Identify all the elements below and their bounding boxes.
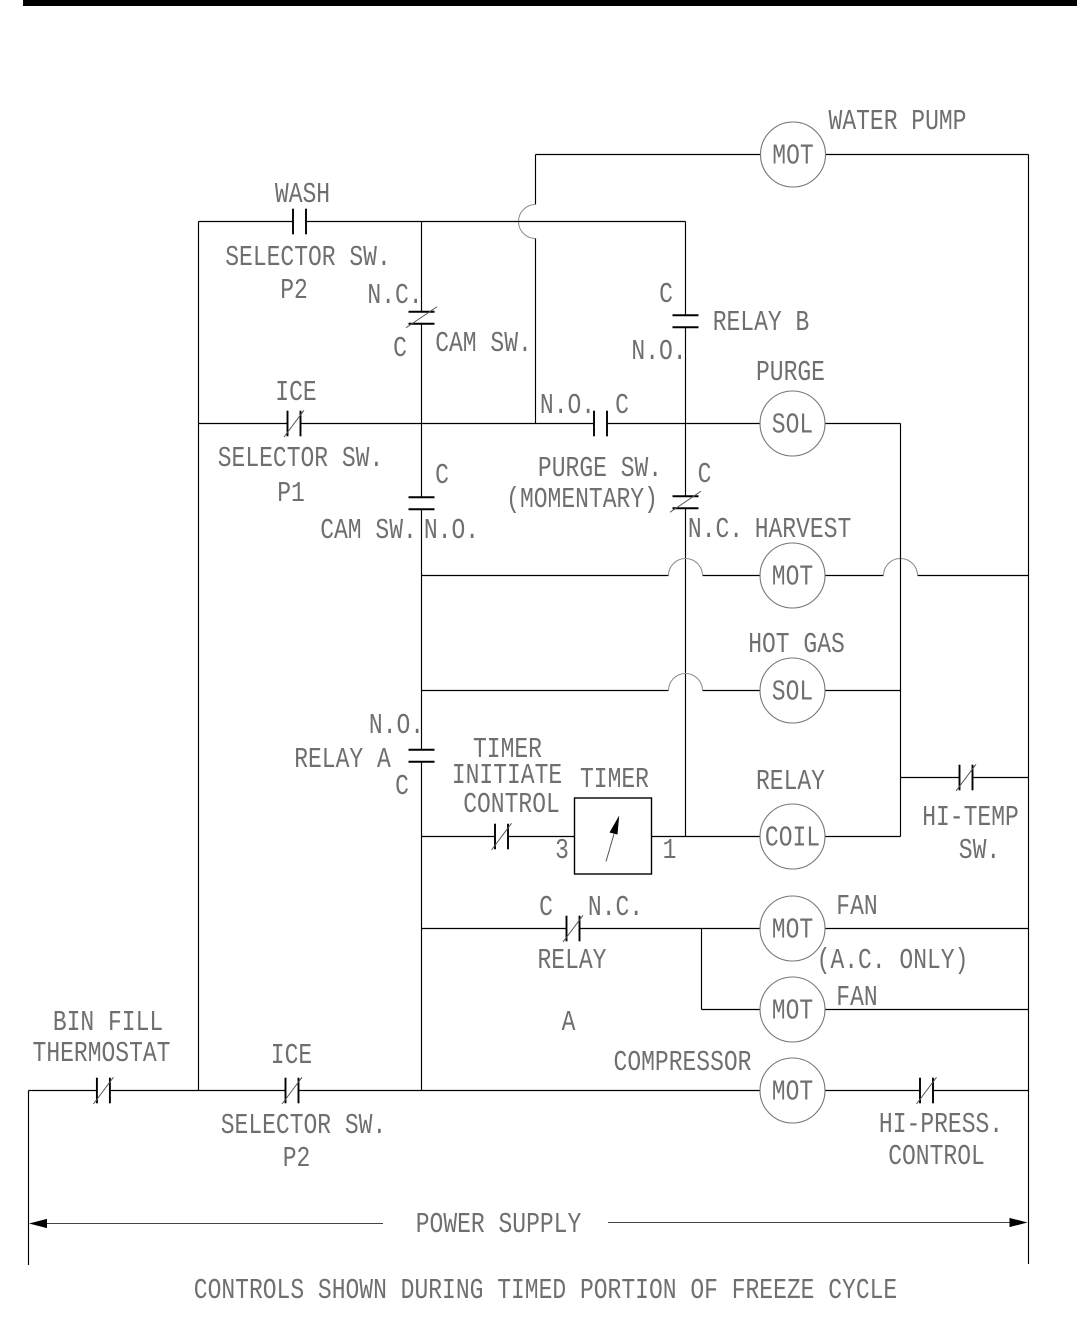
switch WASH selector sw P2 — [293, 209, 306, 235]
svg-text:COMPRESSOR: COMPRESSOR — [614, 1046, 752, 1079]
svg-text:HI-TEMP: HI-TEMP — [922, 801, 1019, 834]
title bar — [23, 0, 1077, 6]
svg-text:P2: P2 — [280, 274, 308, 307]
switch purge sw momentary — [594, 411, 607, 437]
svg-text:MOT: MOT — [772, 1075, 813, 1108]
contact relay A N.O. — [409, 750, 435, 762]
motor harvest MOT — [760, 543, 825, 608]
svg-text:N.O.: N.O. — [369, 709, 424, 742]
svg-text:WASH: WASH — [275, 178, 330, 211]
svg-text:N.O.: N.O. — [631, 335, 686, 368]
wire water pump drop upper — [535, 155, 537, 205]
svg-text:RELAY A: RELAY A — [294, 743, 391, 776]
svg-text:C: C — [659, 278, 673, 311]
svg-text:1: 1 — [663, 834, 677, 867]
wire purge/hi-temp vertical — [900, 424, 902, 837]
svg-text:RELAY: RELAY — [538, 944, 607, 977]
switch cam sw 1 N.C. — [406, 307, 437, 328]
wire cam-sw vertical — [421, 222, 423, 1091]
svg-text:P1: P1 — [277, 477, 305, 510]
svg-text:PURGE: PURGE — [756, 356, 825, 389]
motor fan1 MOT — [760, 896, 825, 961]
svg-text:CAM SW.: CAM SW. — [435, 327, 532, 360]
svg-text:CAM SW.: CAM SW. — [320, 514, 417, 547]
svg-text:TIMER: TIMER — [580, 763, 649, 796]
svg-text:C: C — [698, 458, 712, 491]
wire fan link vertical — [701, 929, 703, 1010]
svg-text:3: 3 — [555, 834, 569, 867]
svg-text:N.C.: N.C. — [367, 279, 422, 312]
svg-text:HOT GAS: HOT GAS — [748, 628, 845, 661]
svg-text:MOT: MOT — [772, 560, 813, 593]
wire water pump row — [536, 154, 1029, 156]
svg-text:HARVEST: HARVEST — [755, 513, 852, 546]
svg-text:WATER PUMP: WATER PUMP — [829, 105, 967, 138]
svg-text:POWER SUPPLY: POWER SUPPLY — [416, 1208, 582, 1241]
svg-text:P2: P2 — [283, 1142, 311, 1175]
switch ICE selector sw P2 bottom — [282, 1077, 302, 1104]
svg-text:CONTROLS SHOWN DURING TIMED PO: CONTROLS SHOWN DURING TIMED PORTION OF F… — [194, 1274, 897, 1307]
svg-text:MOT: MOT — [772, 913, 813, 946]
svg-text:C: C — [539, 891, 553, 924]
svg-text:(MOMENTARY): (MOMENTARY) — [506, 483, 658, 516]
switch bin fill thermostat — [93, 1077, 113, 1104]
wire right rail — [1028, 155, 1030, 1265]
svg-text:BIN FILL: BIN FILL — [53, 1006, 163, 1039]
svg-text:SELECTOR SW.: SELECTOR SW. — [218, 442, 384, 475]
svg-text:SELECTOR SW.: SELECTOR SW. — [221, 1109, 387, 1142]
motor water pump MOT — [761, 122, 826, 187]
contact N.C. harvest — [670, 491, 701, 512]
svg-text:SOL: SOL — [772, 408, 813, 441]
svg-text:N.O.: N.O. — [540, 389, 595, 422]
timer box — [575, 798, 652, 874]
hop hot gas over relay-b line — [669, 674, 703, 691]
timer hand — [606, 834, 614, 862]
motor compressor MOT — [760, 1058, 825, 1123]
svg-text:SELECTOR SW.: SELECTOR SW. — [225, 241, 391, 274]
svg-text:N.C.: N.C. — [688, 513, 743, 546]
svg-text:THERMOSTAT: THERMOSTAT — [33, 1037, 171, 1070]
motor fan2 MOT — [760, 977, 825, 1042]
contact relay B — [673, 315, 699, 327]
switch ICE selector sw P1 — [284, 410, 304, 437]
svg-text:MOT: MOT — [772, 139, 813, 172]
wire left rail — [198, 222, 200, 1091]
switch hi-press control — [917, 1077, 937, 1104]
wire fan2 row — [702, 1009, 1029, 1011]
svg-text:(A.C. ONLY): (A.C. ONLY) — [817, 944, 969, 977]
svg-text:RELAY: RELAY — [756, 765, 825, 798]
switch cam sw 2 N.O. — [409, 497, 435, 509]
wire ice/purge row — [199, 423, 901, 425]
wire fan1 row — [422, 928, 1029, 930]
switch timer initiate control — [492, 823, 512, 850]
power supply right arrow — [608, 1222, 1010, 1224]
wire water pump drop lower — [535, 239, 537, 424]
solenoid purge SOL — [760, 391, 825, 456]
switch hi-temp sw — [956, 764, 976, 791]
svg-text:ICE: ICE — [271, 1039, 312, 1072]
svg-text:C: C — [615, 389, 629, 422]
svg-text:HI-PRESS.: HI-PRESS. — [879, 1108, 1003, 1141]
solenoid hot gas SOL — [760, 658, 825, 723]
svg-text:CONTROL: CONTROL — [463, 788, 560, 821]
svg-text:CONTROL: CONTROL — [888, 1140, 985, 1173]
svg-text:C: C — [393, 332, 407, 365]
wire hop over wash row — [519, 205, 536, 239]
svg-text:COIL: COIL — [765, 821, 820, 854]
wire wash row — [199, 221, 686, 223]
svg-text:FAN: FAN — [836, 890, 877, 923]
svg-text:SW.: SW. — [959, 834, 1000, 867]
svg-text:RELAY B: RELAY B — [713, 306, 810, 339]
wire relay-b vertical — [685, 222, 687, 837]
contact relay A fan row — [563, 915, 583, 942]
svg-text:FAN: FAN — [836, 981, 877, 1014]
wire left power stub — [28, 1091, 30, 1266]
svg-text:C: C — [435, 459, 449, 492]
svg-text:A: A — [562, 1006, 576, 1039]
hop harvest over relay-b line — [669, 559, 703, 576]
svg-text:N.C.: N.C. — [588, 891, 643, 924]
svg-text:ICE: ICE — [275, 376, 316, 409]
wire harvest row — [422, 575, 1029, 577]
wire timer row — [422, 836, 901, 838]
power supply left arrow — [46, 1223, 383, 1225]
svg-text:SOL: SOL — [772, 675, 813, 708]
svg-text:MOT: MOT — [772, 994, 813, 1027]
wire hi-temp row — [901, 777, 1029, 779]
wire hot gas row — [422, 690, 901, 692]
svg-text:PURGE SW.: PURGE SW. — [538, 452, 662, 485]
wire bottom rail — [29, 1090, 1029, 1092]
relay coil COIL — [760, 804, 825, 869]
svg-text:N.O.: N.O. — [424, 514, 479, 547]
hop harvest over purge line — [884, 559, 918, 576]
svg-text:C: C — [395, 770, 409, 803]
